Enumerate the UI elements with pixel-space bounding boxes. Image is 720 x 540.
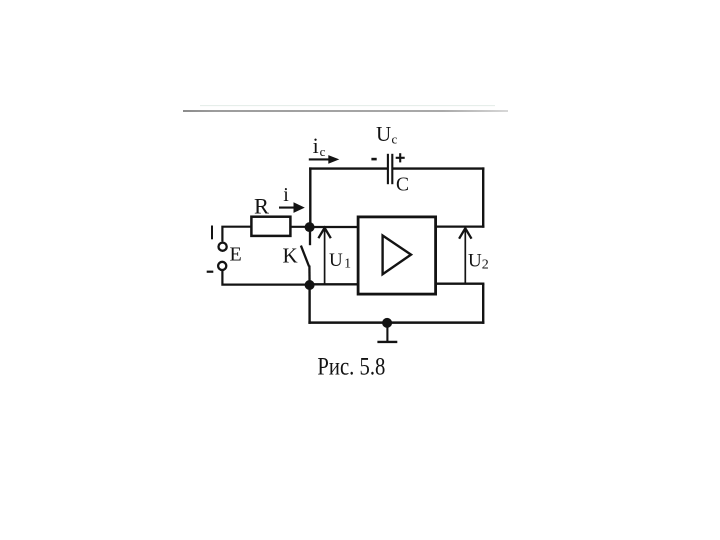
wire: resistor to node A (290, 226, 310, 228)
label K (283, 243, 298, 267)
svg-text:U: U (329, 250, 343, 271)
wire: right feedback vertical (482, 167, 484, 227)
label R (254, 193, 269, 218)
svg-text:E: E (230, 243, 242, 265)
svg-text:K: K (283, 243, 298, 267)
current label i (283, 184, 289, 206)
value label C (396, 175, 409, 196)
wire: node B to op-amp bottom-left (310, 283, 359, 285)
svg-text:2: 2 (482, 258, 489, 273)
capacitor C (388, 154, 392, 184)
wire: E bottom lead (222, 271, 310, 285)
wire: op-amp bottom-right (435, 283, 484, 285)
resistor R (251, 217, 290, 236)
source E terminal + (219, 243, 227, 251)
wire: top feedback right segment (392, 167, 484, 169)
current label ic (313, 133, 326, 159)
svg-text:1: 1 (344, 256, 351, 271)
current arrow i (279, 202, 305, 213)
svg-text:U: U (468, 250, 482, 271)
current arrow ic (309, 155, 340, 164)
voltage arrow U1 (318, 228, 330, 284)
svg-text:c: c (320, 144, 326, 159)
source E terminal - (218, 262, 226, 270)
op-amp A1 body (358, 217, 436, 294)
svg-text:i: i (313, 133, 319, 158)
switch K top stub (309, 227, 311, 245)
node A junction dot (305, 222, 315, 232)
minus mark source E (207, 271, 214, 273)
caption Рис. 5.8 (317, 354, 385, 381)
wire: bottom rail (308, 321, 484, 324)
node B junction dot (305, 280, 315, 290)
voltage label U2 (468, 250, 489, 272)
plus mark capacitor (396, 153, 405, 162)
op-amp A1 triangle (383, 236, 411, 275)
switch K bottom stub (308, 266, 311, 286)
wire: left lower vertical (308, 285, 310, 324)
separator line (183, 106, 508, 111)
wire: E top lead (222, 227, 251, 242)
switch K blade (301, 246, 309, 267)
svg-text:c: c (392, 132, 398, 147)
svg-text:R: R (254, 193, 269, 218)
minus mark capacitor (371, 158, 376, 161)
wire: left feedback vertical (309, 167, 311, 228)
ground node dot (382, 318, 392, 328)
wire: op-amp output (435, 225, 484, 227)
ground (377, 323, 397, 342)
wire: node A to op-amp input (310, 226, 359, 228)
plus mark source E (211, 226, 213, 240)
svg-text:i: i (283, 184, 289, 206)
voltage label Uc (376, 122, 398, 147)
voltage arrow U2 (459, 228, 471, 283)
svg-text:U: U (376, 122, 391, 146)
label E (230, 243, 242, 265)
svg-text:Рис. 5.8: Рис. 5.8 (317, 354, 385, 381)
wire: right lower vertical (482, 284, 484, 324)
wire: top feedback left segment (309, 167, 388, 169)
svg-text:C: C (396, 175, 409, 196)
voltage label U1 (329, 250, 351, 271)
